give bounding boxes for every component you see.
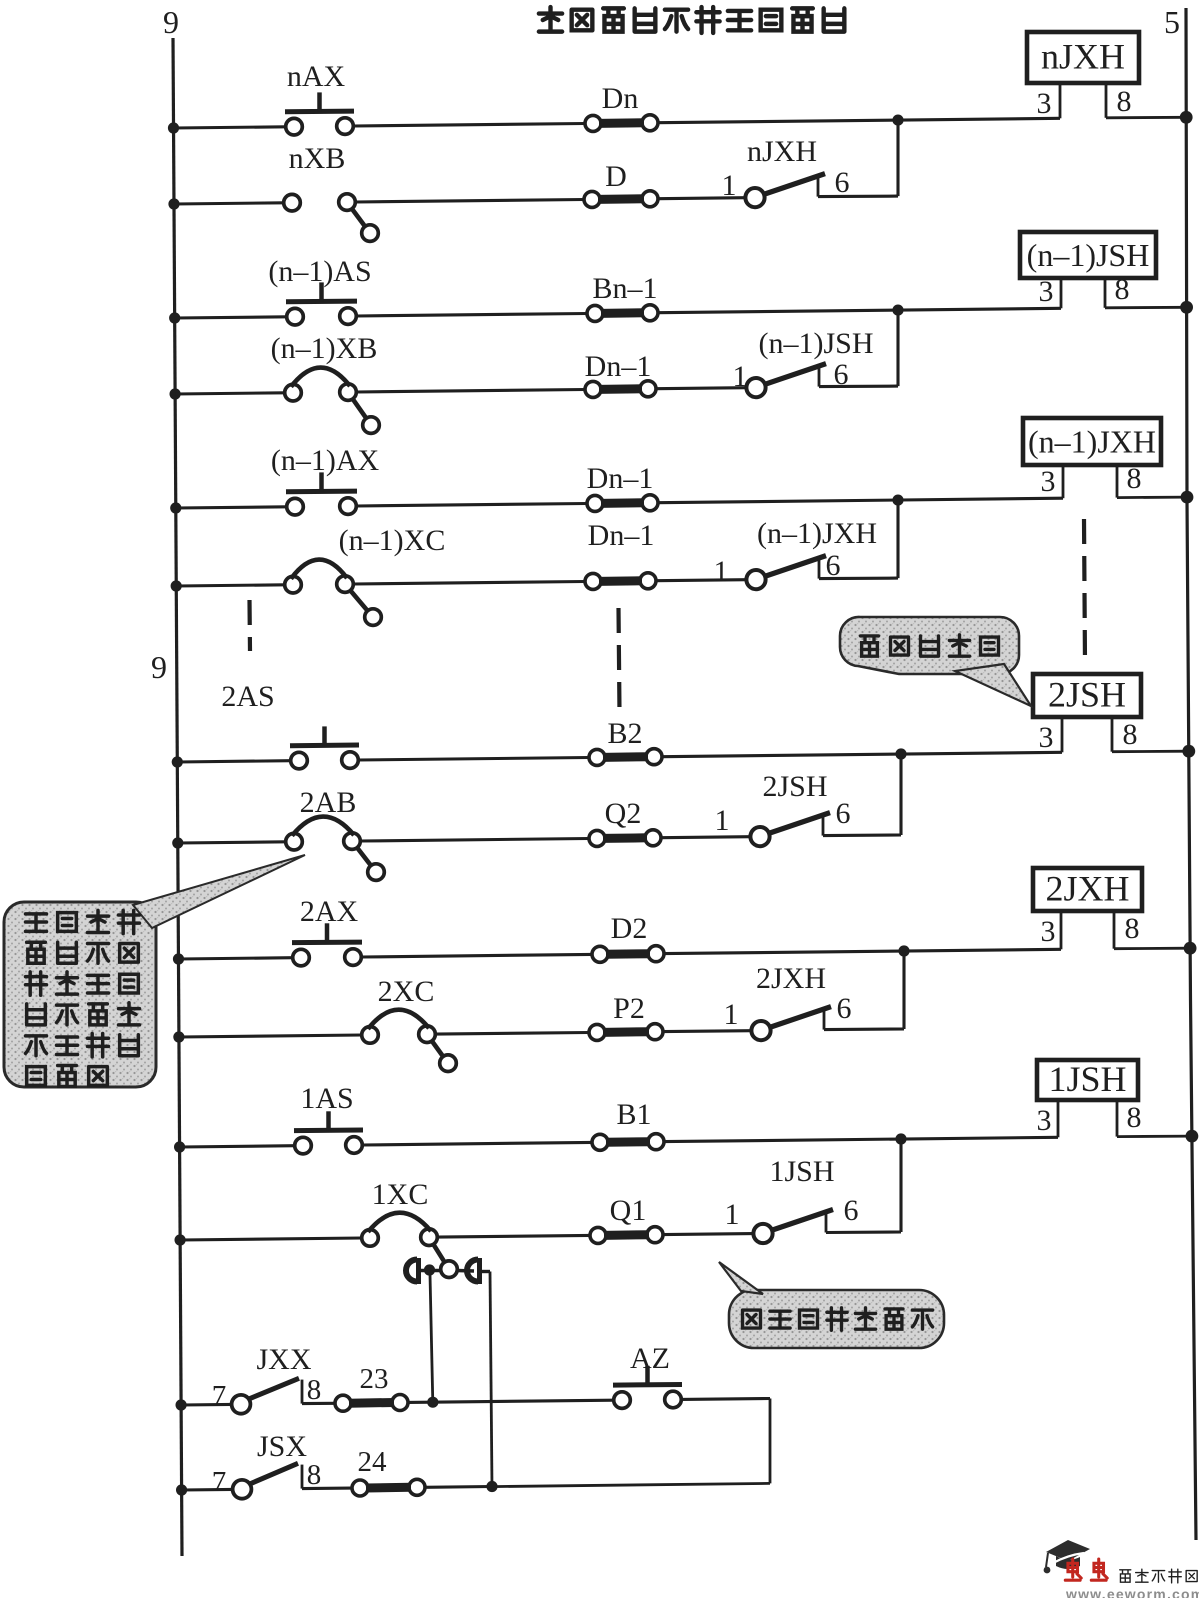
(n–1)XC contact circles and moving contact <box>285 576 302 593</box>
terminal Dn circles and bar <box>585 115 601 131</box>
1AS contact circles, bar and actuator <box>295 1137 312 1154</box>
node rung11 hold junction <box>895 1133 906 1144</box>
wire rung3 (n-1)AS to Bn-1 <box>356 314 587 317</box>
pushbutton (n–1)AX <box>271 444 380 515</box>
2AX contact circles, bar and actuator <box>293 949 310 966</box>
terminal B1 <box>592 1098 664 1150</box>
wire rung11 1AS to B1 <box>362 1142 592 1145</box>
svg-text:3: 3 <box>1039 721 1054 754</box>
svg-text:6: 6 <box>836 797 851 830</box>
terminal B1 circles and bar <box>592 1134 608 1150</box>
nJXH contact pivot circle and blade <box>745 188 764 207</box>
wire rung10 P2 to contact 2JXH <box>663 1029 751 1033</box>
selector contact nXB <box>284 142 379 241</box>
svg-text:1: 1 <box>715 804 730 837</box>
pin 8 stub (n–1)JXH <box>1116 465 1119 498</box>
svg-text:3: 3 <box>1041 465 1056 498</box>
wire rung14 bus to JSX <box>182 1488 233 1492</box>
1JSH contact pivot circle and blade <box>753 1224 772 1243</box>
svg-text:(n–1)XB: (n–1)XB <box>271 332 378 365</box>
glyphs for: text note line 1 <box>26 914 47 932</box>
watermark text 电子下载站 <box>1120 1569 1197 1583</box>
pin 3 stub 2JSH <box>1061 717 1064 752</box>
text note line 2 <box>27 942 139 963</box>
terminal P2 <box>589 992 663 1040</box>
svg-text:3: 3 <box>1039 275 1054 308</box>
wire hold vertical 2JSH <box>899 754 902 835</box>
svg-text:9: 9 <box>163 4 179 40</box>
svg-text:(n–1)AX: (n–1)AX <box>271 444 380 477</box>
wire hold vertical 1JSH <box>899 1139 902 1232</box>
glyphs for: text 继电器线圈 <box>861 636 879 656</box>
glyphs for: text 控制柜接线端子 <box>743 1310 761 1328</box>
glyphs for: watermark text 电子下载站 <box>1120 1570 1131 1582</box>
svg-text:8: 8 <box>1123 718 1138 751</box>
wire rung5 bus to (n-1)AX <box>176 507 287 508</box>
2JXH coil box <box>1033 868 1142 911</box>
svg-text:Q1: Q1 <box>610 1194 647 1227</box>
node rung11 at left bus <box>174 1141 185 1152</box>
terminal Dn-1 rung5 circles and bar <box>587 495 603 511</box>
dashed continuation line middle column <box>619 608 620 712</box>
terminal D2 circles and bar <box>592 946 608 962</box>
text note line 6 <box>27 1066 108 1087</box>
node rung5 at left bus <box>170 502 181 513</box>
wire rung9 bus to 2AX <box>179 958 293 959</box>
relay contact JXX (7-8) <box>212 1343 322 1414</box>
svg-text:1JSH: 1JSH <box>769 1155 834 1188</box>
AZ contact circles, bar and actuator <box>614 1392 631 1409</box>
wire rung8 Q2 to contact 2JSH <box>661 837 750 838</box>
(n–1)JXH coil box <box>1023 418 1161 465</box>
selector contact 2XC <box>362 975 457 1071</box>
wire pin8 2JSH to right bus <box>1112 750 1189 753</box>
watermark graduation cap logo <box>1044 1540 1090 1573</box>
terminal Dn-1 rung6 circles and bar <box>585 573 601 589</box>
node rung6 at left bus <box>171 580 182 591</box>
pin 3 stub 1JSH <box>1057 1100 1060 1137</box>
svg-text:1AS: 1AS <box>300 1082 353 1115</box>
terminal Q1 circles and bar <box>590 1227 606 1243</box>
svg-text:1: 1 <box>722 169 737 202</box>
callout bubble 机械选层器触点 (selector contacts note) <box>4 855 305 1087</box>
svg-text:Bn–1: Bn–1 <box>592 272 657 305</box>
wire rung11 bus to 1AS <box>180 1146 295 1147</box>
svg-text:8: 8 <box>1117 85 1132 118</box>
terminal Dn-1 rung4 <box>585 350 656 397</box>
text note line 3 <box>26 972 139 995</box>
wire rung4 Dn-1 to contact (n-1)JSH <box>656 388 746 389</box>
pin 3 stub (n–1)JXH <box>1062 465 1065 498</box>
wire rung2 nXB to D <box>355 200 584 203</box>
svg-text:Dn–1: Dn–1 <box>588 519 655 552</box>
svg-text:B2: B2 <box>607 717 642 750</box>
terminal D circles and bar <box>584 191 600 207</box>
terminal 24 <box>352 1446 425 1496</box>
node rung14 connector junction <box>486 1481 497 1492</box>
svg-text:Dn–1: Dn–1 <box>587 462 654 495</box>
red bug characters <box>1065 1559 1081 1580</box>
relay coil 2JSH <box>1033 674 1195 758</box>
wire rung6 bus to (n-1)XC <box>176 585 285 586</box>
svg-text:9: 9 <box>151 649 167 685</box>
svg-text:nXB: nXB <box>289 142 346 175</box>
wire 2JSH contact to hold node <box>823 833 901 837</box>
svg-text:(n–1)XC: (n–1)XC <box>339 524 446 557</box>
relay coil nJXH <box>1027 32 1193 124</box>
wire rung12 bus to 1XC <box>180 1238 362 1240</box>
relay coil 2JXH <box>1033 868 1197 955</box>
wire left bus 9 <box>173 38 182 1556</box>
wire rung8 bus to 2AB <box>178 842 286 843</box>
bubble body and tail <box>729 1290 944 1348</box>
pin 8 stub 2JSH <box>1111 717 1114 752</box>
svg-text:JSX: JSX <box>257 1430 307 1463</box>
terminal Dn-1 rung6 <box>585 519 656 589</box>
terminal Dn-1 rung4 circles and bar <box>585 381 601 397</box>
bubble body and tail <box>4 902 156 1087</box>
nXB contact circles and moving contact <box>284 194 301 211</box>
svg-text:7: 7 <box>212 1380 227 1412</box>
node right bus at 2JXH <box>1184 942 1197 955</box>
svg-text:B1: B1 <box>616 1098 651 1131</box>
relay coil (n–1)JSH <box>1020 232 1193 314</box>
watermark 虫虫 (red) <box>1065 1559 1107 1580</box>
wire rung2 bus to nXB <box>174 203 284 204</box>
wire rung5 Dn-1 to (n-1)JXH pin3 <box>658 498 1063 503</box>
node rung13 at left bus <box>176 1399 187 1410</box>
pin 8 stub 2JXH <box>1113 911 1116 949</box>
wire pin8 nJXH to right bus <box>1106 116 1186 119</box>
(n–1)JSH coil box <box>1020 232 1156 278</box>
svg-text:1JSH: 1JSH <box>1048 1059 1126 1099</box>
node right bus at nJXH <box>1180 111 1193 124</box>
nAX contact circles, bar and actuator <box>286 118 303 135</box>
wire (n–1)JSH contact to hold node <box>819 385 898 389</box>
wire rung6 (n-1)XC to Dn-1 <box>353 582 585 585</box>
wire socket to plug circle <box>421 1269 441 1272</box>
wire rung12 Q1 to contact 1JSH <box>663 1234 753 1235</box>
relay contact 2JSH (1-6) <box>715 770 851 846</box>
wire hold vertical (n–1)JSH <box>896 310 899 386</box>
terminal B2 circles and bar <box>589 749 605 765</box>
node rung3 hold junction <box>892 305 903 316</box>
selector contact 2AB <box>286 786 385 880</box>
wire hold vertical 2JXH <box>902 951 905 1029</box>
svg-text:1: 1 <box>714 555 729 588</box>
wire rung8 2AB to Q2 <box>360 839 589 842</box>
wire rung4 bus to (n-1)XB <box>175 393 285 394</box>
svg-text:D: D <box>605 160 627 193</box>
socket right arc and bar <box>467 1260 478 1282</box>
terminal Q1 <box>590 1194 663 1243</box>
svg-text:2AS: 2AS <box>221 680 274 713</box>
wire rung6 Dn-1 to contact (n-1)JXH <box>656 580 746 581</box>
svg-text:2JSH: 2JSH <box>1048 675 1126 715</box>
socket left arc and bar <box>406 1260 417 1282</box>
terminal Q2 circles and bar <box>589 830 605 846</box>
node rung8 at left bus <box>172 837 183 848</box>
svg-text:8: 8 <box>307 1459 322 1491</box>
svg-text:nJXH: nJXH <box>1041 37 1125 77</box>
wire hold vertical (n–1)JXH <box>896 500 899 578</box>
wire rung10 bus to 2XC <box>179 1035 362 1037</box>
svg-text:(n–1)JXH: (n–1)JXH <box>757 517 877 550</box>
glyphs for: text note line 5 <box>26 1036 47 1056</box>
node rung7 at left bus <box>172 756 183 767</box>
wire nJXH contact to hold node <box>818 195 898 199</box>
svg-text:2AB: 2AB <box>300 786 357 819</box>
svg-text:Dn–1: Dn–1 <box>585 350 652 383</box>
node rung1 hold junction <box>892 115 903 126</box>
wire (n–1)JXH contact to hold node <box>819 577 898 581</box>
wire rung3 bus to (n-1)AS <box>175 317 287 318</box>
JSX pivot circle and blade <box>233 1480 252 1499</box>
(n–1)JXH contact pivot circle and blade <box>746 570 765 589</box>
pushbutton (n–1)AS <box>268 255 371 325</box>
pin 3 stub 2JXH <box>1060 911 1063 949</box>
svg-text:6: 6 <box>844 1194 859 1227</box>
2AB contact circles and moving contact <box>286 833 303 850</box>
svg-text:2AX: 2AX <box>300 895 359 928</box>
pin 3 stub nJXH <box>1059 83 1062 118</box>
1JSH coil box <box>1037 1060 1138 1100</box>
title 厅外呼叫及消号控制区 <box>539 7 844 33</box>
svg-text:JXX: JXX <box>256 1343 311 1376</box>
svg-text:3: 3 <box>1037 1104 1052 1137</box>
terminal 23 <box>335 1363 408 1411</box>
node rung9 hold junction <box>898 945 909 956</box>
wire hold vertical nJXH <box>896 120 899 196</box>
wire rung2 D to contact nJXH <box>658 198 745 199</box>
wire rung3 Bn-1 to (n-1)JSH pin3 <box>658 308 1061 312</box>
pin 3 stub (n–1)JSH <box>1060 278 1063 308</box>
terminal Dn <box>585 82 658 131</box>
node rung10 at left bus <box>173 1031 184 1042</box>
svg-text:Q2: Q2 <box>605 797 642 830</box>
wire rung4 (n-1)XB to Dn-1 <box>356 390 585 393</box>
glyphs for: text note line 6 <box>27 1067 46 1086</box>
wire rung13 bus to JXX <box>181 1403 232 1407</box>
node rung9 at left bus <box>173 953 184 964</box>
JXX pivot circle and blade <box>232 1395 251 1414</box>
wire rung9 2AX to D2 <box>361 954 592 957</box>
node rung5 hold junction <box>892 495 903 506</box>
node rung4 at left bus <box>170 388 181 399</box>
svg-text:3: 3 <box>1041 915 1056 948</box>
svg-text:nJXH: nJXH <box>747 135 817 168</box>
svg-text:www.eeworm.com: www.eeworm.com <box>1065 1586 1199 1598</box>
svg-text:7: 7 <box>212 1466 227 1498</box>
node rung12 at left bus <box>175 1234 186 1245</box>
svg-text:nAX: nAX <box>287 60 346 93</box>
relay coil (n–1)JXH <box>1023 418 1193 504</box>
svg-text:Dn: Dn <box>602 82 639 115</box>
svg-text:8: 8 <box>1127 462 1142 495</box>
wire connector down to rung13 (terminal 23 side) <box>430 1275 433 1403</box>
glyphs for: text note line 4 <box>27 1004 46 1025</box>
wire pin8 (n–1)JSH to right bus <box>1105 306 1187 309</box>
node rung13 connector junction <box>427 1397 438 1408</box>
dashed continuation line at 2AS column <box>247 600 252 651</box>
wire rung14 JSX to 24 <box>302 1487 352 1491</box>
node rung1 at left bus <box>168 122 179 133</box>
wire rung1 bus to nAX <box>174 127 286 128</box>
svg-text:2XC: 2XC <box>378 975 435 1008</box>
svg-text:P2: P2 <box>613 992 645 1025</box>
relay contact (n–1)JSH (1-6) <box>733 327 874 397</box>
relay coil 1JSH <box>1037 1059 1199 1143</box>
bubble body and tail <box>840 617 1019 674</box>
wire pin8 2JXH to right bus <box>1114 947 1190 950</box>
(n–1)AS contact circles, bar and actuator <box>287 308 304 325</box>
text note line 1 <box>26 910 140 933</box>
wire rung13 AZ to right corner <box>681 1397 770 1401</box>
node right bus at 1JSH <box>1186 1130 1199 1143</box>
terminal Dn-1 rung5 <box>587 462 658 511</box>
(n–1)XB contact circles and moving contact <box>285 384 302 401</box>
callout bubble 控制柜接线端子 (cabinet terminals) <box>719 1262 944 1348</box>
wire rung7 bus to 2AS button <box>177 761 290 762</box>
svg-text:8: 8 <box>1115 273 1130 306</box>
2XC contact circles and moving contact <box>362 1027 379 1044</box>
nJXH coil box <box>1027 32 1139 83</box>
selector contact (n–1)XC <box>285 524 446 625</box>
connector socket left <box>406 1258 419 1284</box>
wire 2JXH contact to hold node <box>824 1027 904 1031</box>
2JXH contact pivot circle and blade <box>751 1021 770 1040</box>
2JSH coil box <box>1033 674 1141 717</box>
wire right bus 5 <box>1186 8 1196 1540</box>
svg-text:AZ: AZ <box>630 1342 670 1375</box>
relay contact nJXH (1-6) <box>722 135 850 207</box>
terminal Q2 <box>589 797 661 846</box>
wire pin8 (n–1)JXH to right bus <box>1117 496 1187 499</box>
svg-text:6: 6 <box>837 992 852 1025</box>
svg-text:8: 8 <box>307 1374 322 1406</box>
2JSH contact pivot circle and blade <box>750 827 769 846</box>
svg-text:1XC: 1XC <box>372 1178 429 1211</box>
wire AZ return horizontal to rung14 <box>492 1483 770 1486</box>
svg-text:8: 8 <box>1125 912 1140 945</box>
svg-text:(n–1)AS: (n–1)AS <box>268 255 371 288</box>
glyphs for: text note line 2 <box>27 942 46 963</box>
terminal Bn-1 circles and bar <box>587 305 603 321</box>
relay contact 1JSH (1-6) <box>725 1155 859 1243</box>
wire rung9 D2 to 2JXH pin3 <box>664 949 1061 953</box>
pin 8 stub 1JSH <box>1116 1100 1119 1137</box>
text note line 4 <box>27 1003 140 1025</box>
wire 1JSH contact to hold node <box>826 1230 901 1234</box>
wire rung13 JXX to 23 <box>302 1402 335 1405</box>
node right bus at 2JSH <box>1182 745 1195 758</box>
(n–1)AX contact circles, bar and actuator <box>287 498 304 515</box>
node rung14 at left bus <box>176 1484 187 1495</box>
terminal 24 circles and bar <box>352 1480 368 1496</box>
svg-text:2JXH: 2JXH <box>756 962 826 995</box>
svg-text:3: 3 <box>1037 87 1052 120</box>
svg-text:6: 6 <box>835 166 850 199</box>
wire pin8 1JSH to right bus <box>1117 1135 1192 1138</box>
relay contact JSX (7-8) <box>212 1430 322 1499</box>
(n–1)JSH contact pivot circle and blade <box>746 378 765 397</box>
wire rung14 terminal 24 to junction <box>425 1485 492 1489</box>
node right bus at (n–1)JSH <box>1180 301 1193 314</box>
glyphs for: text note line 3 <box>26 972 47 995</box>
wire connector down to rung14 (terminal 24 side) <box>490 1272 492 1487</box>
svg-text:24: 24 <box>358 1446 388 1478</box>
node rung2 at left bus <box>168 198 179 209</box>
terminal D <box>584 160 658 207</box>
svg-text:(n–1)JSH: (n–1)JSH <box>1027 237 1150 273</box>
svg-text:(n–1)JSH: (n–1)JSH <box>758 327 873 360</box>
pushbutton AZ <box>613 1342 682 1408</box>
pushbutton 2AS <box>290 726 359 768</box>
svg-text:1: 1 <box>724 998 739 1031</box>
pin 8 stub (n–1)JSH <box>1104 278 1107 308</box>
selector contact 1XC <box>362 1178 458 1277</box>
dashed continuation line right column <box>1084 519 1085 663</box>
terminal B2 <box>589 717 662 765</box>
node right bus at (n–1)JXH <box>1181 491 1194 504</box>
node rung3 at left bus <box>169 312 180 323</box>
wire rung10 2XC to P2 <box>435 1033 589 1035</box>
node rung7 hold junction <box>895 748 906 759</box>
svg-text:(n–1)JXH: (n–1)JXH <box>1028 424 1156 460</box>
connector socket right <box>467 1258 479 1284</box>
glyphs for: title 厅外呼叫及消号控制区 <box>539 7 562 32</box>
relay contact (n–1)JXH (1-6) <box>714 517 878 589</box>
text note line 5 <box>26 1034 139 1057</box>
selector contact (n–1)XB <box>271 332 380 433</box>
wire rung13 terminal 23 to AZ <box>408 1400 614 1402</box>
terminal P2 circles and bar <box>589 1024 605 1040</box>
wire plug circle to socket right <box>457 1269 474 1273</box>
terminal D2 <box>592 912 664 962</box>
svg-text:D2: D2 <box>611 912 648 945</box>
mortarboard, head and tassel <box>1046 1540 1090 1561</box>
pushbutton 1AS <box>294 1082 363 1154</box>
pushbutton nAX <box>285 60 354 135</box>
pin 8 stub nJXH <box>1105 83 1108 118</box>
wire socket right corner <box>482 1270 490 1273</box>
pushbutton 2AX <box>292 895 362 966</box>
wire rung11 B1 to 1JSH pin3 <box>664 1137 1058 1141</box>
text 控制柜接线端子 <box>743 1308 933 1331</box>
terminal Bn-1 <box>587 272 658 321</box>
svg-text:2JXH: 2JXH <box>1045 869 1129 909</box>
svg-text:23: 23 <box>360 1363 389 1395</box>
svg-text:1: 1 <box>725 1198 740 1231</box>
text 继电器线圈 <box>861 635 999 656</box>
node connector junction <box>424 1264 435 1275</box>
svg-text:5: 5 <box>1164 4 1180 40</box>
svg-text:1: 1 <box>733 360 748 393</box>
wire rung7 2AS to B2 <box>358 758 589 761</box>
wire rung1 nAX to Dn <box>353 124 585 127</box>
svg-text:8: 8 <box>1127 1101 1142 1134</box>
terminal 23 circles and bar <box>335 1395 351 1411</box>
svg-text:2JSH: 2JSH <box>762 770 827 803</box>
wire rung12 1XC to Q1 <box>437 1235 590 1237</box>
relay contact 2JXH (1-6) <box>724 962 852 1040</box>
wire AZ return vertical <box>769 1399 772 1484</box>
wire rung1 Dn to nJXH pin3 <box>658 118 1060 122</box>
2AS contact circles, bar and actuator <box>291 752 308 769</box>
callout bubble 继电器线圈 (relay coil) <box>840 617 1031 706</box>
wire rung7 B2 to 2JSH pin3 <box>662 752 1062 756</box>
wire rung5 (n-1)AX to Dn-1 <box>356 504 587 507</box>
